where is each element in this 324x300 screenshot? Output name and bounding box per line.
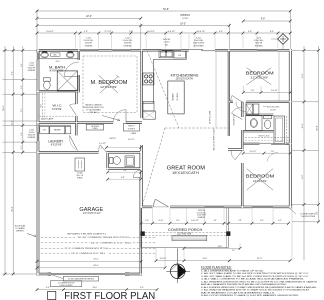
ceiling: vault ridge dashed [165, 127, 229, 129]
walls: double-line rendering (white core pass) [37, 49, 292, 275]
svg-text:12'X11'X9': 12'X11'X9' [250, 75, 268, 79]
extension stub porch row [183, 248, 185, 261]
window: m.bedroom top wall 1 [80, 49, 99, 51]
wall: bath2 north inner [244, 114, 274, 116]
wall: m wing south interior [36, 122, 115, 124]
window: great room south [205, 206, 225, 208]
door: bedroom2 door swing [235, 151, 242, 160]
door: mud bath door swing [100, 145, 106, 153]
svg-text:9'-8": 9'-8" [261, 19, 266, 21]
svg-text:7. ALL WINDOW HEADERS ■ NOTE T: 7. ALL WINDOW HEADERS ■ NOTE TO HAVE SOL… [201, 289, 310, 292]
svg-text:6'-6": 6'-6" [270, 31, 274, 33]
svg-text:56'-0": 56'-0" [3, 105, 5, 111]
fixture: bath2 vanity [246, 116, 262, 131]
svg-text:PATIO: PATIO [181, 13, 191, 17]
svg-text:22'-0": 22'-0" [86, 16, 92, 18]
top dimension row 2 left 22'-0 [37, 17, 141, 19]
garage dim row 22'-0 [37, 260, 141, 262]
wall: wic east / laundry east [75, 90, 77, 105]
svg-text:4'-4 1/2": 4'-4 1/2" [147, 31, 155, 33]
wall: bedroom1 south [228, 101, 234, 103]
svg-text:4. ALL WALL CORNERS TO BE 4x A: 4. ALL WALL CORNERS TO BE 4x AND INCLUDE… [201, 278, 305, 281]
wall: bedroom2 west / hall east [241, 101, 243, 118]
svg-text:EGRESS: EGRESS [85, 45, 93, 47]
svg-text:2'-1": 2'-1" [21, 145, 23, 149]
door: bedroom2 closet small arc [267, 152, 278, 161]
svg-text:50 GAL: 50 GAL [77, 171, 83, 174]
svg-text:2'-0": 2'-0" [145, 220, 149, 222]
porch: west edge line [140, 208, 142, 248]
fixture: m.bath double vanity [39, 51, 78, 58]
svg-text:ENTRY: ENTRY [110, 138, 117, 140]
svg-text:6'-2": 6'-2" [21, 63, 23, 67]
svg-text:7'-8": 7'-8" [213, 220, 217, 222]
window: bedroom1 top wall [257, 49, 278, 51]
svg-text:5'-4": 5'-4" [176, 220, 180, 222]
svg-text:4'-6 1/2": 4'-6 1/2" [168, 31, 176, 33]
svg-text:10'-0": 10'-0" [203, 258, 208, 260]
wall: mud bath south [105, 168, 143, 170]
svg-text:EGRESS: EGRESS [198, 217, 206, 219]
svg-text:EGRESS: EGRESS [124, 45, 132, 47]
wall: garage east [140, 150, 142, 171]
svg-text:EGRESS: EGRESS [28, 70, 36, 72]
svg-text:4'-6": 4'-6" [219, 31, 223, 33]
svg-text:4x CORNER STUD W/: 4x CORNER STUD W/ [58, 282, 75, 284]
walls: double-line rendering (dark pass) [37, 49, 292, 275]
svg-text:LAUNDRY: LAUNDRY [48, 140, 64, 144]
door: entry door great room [153, 199, 155, 207]
svg-text:FLOOR PLAN NOTES:: FLOOR PLAN NOTES: [201, 265, 232, 269]
svg-text:12'X6'X9': 12'X6'X9' [177, 232, 192, 236]
wall: top exterior [36, 49, 81, 51]
garage truss dashed line 4 with label [41, 252, 156, 254]
garage truss dashed line 2 with label [41, 242, 156, 244]
svg-text:10'-6 1/2": 10'-6 1/2" [197, 31, 206, 33]
svg-text:W.I.C.: W.I.C. [53, 104, 63, 108]
dim: hall row at closet [243, 152, 290, 154]
svg-text:6'-7": 6'-7" [21, 108, 23, 112]
svg-text:STAND: STAND [77, 177, 83, 180]
svg-text:6'X9'X9': 6'X9'X9' [52, 109, 62, 111]
garage hdr note box 2 [50, 281, 81, 287]
svg-text:(VERIFY): (VERIFY) [16, 230, 24, 232]
svg-text:2x6 PLATE: 2x6 PLATE [41, 117, 54, 120]
extension line: left wall to top rows [36, 10, 38, 49]
door: bath1 door swing [232, 96, 244, 103]
svg-text:26'-10" COMMON TRUSS 8/12 PITC: 26'-10" COMMON TRUSS 8/12 PITCH [78, 237, 130, 239]
door: m.bedroom door swing [113, 110, 126, 123]
svg-text:11'-2": 11'-2" [302, 73, 304, 78]
svg-text:2-2x10 DBL: 2-2x10 DBL [194, 40, 204, 42]
svg-text:8'-4 1/2": 8'-4 1/2" [271, 90, 278, 92]
bottom dim row long [156, 260, 290, 262]
fixture: kitchen counter L [143, 51, 186, 103]
svg-text:6'-10": 6'-10" [159, 220, 164, 222]
fixture: wic shelf and rod dashed [42, 93, 44, 119]
svg-text:8'X9'6"X9': 8'X9'6"X9' [50, 70, 64, 73]
svg-text:FIRST FLOOR PLAN: FIRST FLOOR PLAN [64, 291, 155, 300]
fixture: bedroom2 closet rod dashed [245, 137, 289, 139]
garage door dim row [37, 289, 157, 291]
fixture: dishwasher [174, 51, 185, 58]
wall: garage bottom exterior with overhead door opening [36, 273, 53, 275]
fixture: mud bath sink cabinet [125, 156, 134, 167]
fixture: water heater garage [75, 158, 85, 171]
title block square symbol [48, 291, 56, 299]
fixture: range [143, 73, 154, 85]
svg-text:3'-8": 3'-8" [317, 211, 319, 215]
line: kitchen dining ceiling break [215, 51, 217, 128]
dim: bedroom1 interior row [243, 92, 292, 94]
svg-text:12'X14'X9': 12'X14'X9' [100, 85, 118, 89]
ceiling: vault hip great room dashed [143, 128, 166, 205]
bottom dim row mid 24'-0 [184, 247, 240, 249]
svg-text:3. ALL INT. WALLS ARE TO BE 2x: 3. ALL INT. WALLS ARE TO BE 2x4 SPF CONS… [201, 275, 310, 278]
svg-text:W/ SHELF: W/ SHELF [128, 128, 135, 130]
porch stoop hatch [172, 236, 207, 241]
svg-text:ISLAND: ISLAND [172, 93, 175, 101]
room X mark: m.bedroom [100, 77, 118, 94]
dim: hall row above mud bath [107, 146, 141, 148]
wall: left exterior [37, 48, 40, 55]
left extension lines [3, 49, 38, 51]
fixture: kitchen island [168, 81, 184, 114]
left dimension chain inner [22, 46, 24, 152]
door: hall door below bedroom1 wall [245, 102, 247, 115]
svg-text:2'-6": 2'-6" [129, 31, 133, 33]
svg-text:2-2x6: 2-2x6 [125, 37, 130, 39]
svg-text:18'X18'XCATH: 18'X18'XCATH [172, 171, 200, 175]
extension stubs below south wall [152, 209, 154, 223]
svg-text:4-2x6: 4-2x6 [196, 37, 201, 39]
room X mark: bedroom1 [247, 68, 272, 85]
svg-text:5'-0": 5'-0" [99, 148, 103, 150]
svg-text:3'-0": 3'-0" [21, 85, 23, 89]
fixture: bath2 linen with X [246, 104, 253, 115]
left chain lower garage 25'-0 [12, 152, 14, 274]
svg-text:10'-0": 10'-0" [302, 123, 304, 128]
door: laundry door swing [70, 136, 78, 151]
svg-text:6030 SLIDER: 6030 SLIDER [193, 43, 205, 45]
svg-text:52'-8": 52'-8" [163, 9, 169, 11]
svg-text:25'-4": 25'-4" [11, 206, 13, 212]
svg-text:11'-6": 11'-6" [302, 174, 304, 179]
keynote diamond top right [278, 34, 289, 45]
wall: hall south [227, 148, 245, 150]
svg-text:8'-0": 8'-0" [260, 220, 264, 222]
svg-text:16'-0": 16'-0" [93, 287, 98, 289]
svg-text:4'-0 1/2": 4'-0 1/2" [99, 143, 106, 145]
svg-text:DW: DW [178, 55, 181, 57]
dim: porch corner 2'-0 [239, 243, 241, 248]
svg-text:COVERED PORCH: COVERED PORCH [168, 228, 203, 232]
porch: south slab edge [141, 247, 228, 249]
svg-text:ATTIC ACCESS: ATTIC ACCESS [267, 105, 280, 108]
svg-text:2-2x10 SILL: 2-2x10 SILL [254, 40, 264, 42]
right extension lines [292, 49, 319, 51]
svg-text:4'-0 1/2": 4'-0 1/2" [128, 139, 135, 141]
porch dimension row [141, 222, 289, 224]
svg-text:22'-0": 22'-0" [93, 259, 99, 261]
svg-text:2. ALL EXT. WALLS ARE TO BE 2x: 2. ALL EXT. WALLS ARE TO BE 2x6 SPF CONS… [201, 272, 310, 275]
svg-text:8'-4 1/2": 8'-4 1/2" [46, 31, 54, 33]
svg-text:3050 SH: 3050 SH [163, 39, 171, 41]
door: wic door leaf [70, 105, 77, 116]
ceiling: vault hip kitchen dashed [147, 51, 179, 129]
svg-text:2'-6": 2'-6" [271, 151, 275, 153]
svg-text:5'-8": 5'-8" [123, 170, 127, 172]
top dimension row 1 overall 52'-8 [37, 10, 290, 12]
wall: m.bath south / wic north [36, 90, 80, 92]
window: kitchen top wall [162, 49, 181, 51]
svg-text:6'-10 1/2": 6'-10 1/2" [191, 220, 199, 222]
fixture: pantry cabinet [123, 123, 139, 131]
svg-text:4'-6": 4'-6" [248, 31, 252, 33]
svg-text:16'-0" OVERH & 9'-0" SILL: 16'-0" OVERH & 9'-0" SILL [91, 242, 133, 244]
extension line: kitchen east wall top [228, 24, 230, 50]
svg-text:2-2x10: 2-2x10 [164, 42, 170, 44]
svg-text:5/8 GWB CLG: 5/8 GWB CLG [233, 114, 235, 125]
wall: garage top / house south at hall [36, 151, 100, 153]
svg-text:3'-0": 3'-0" [140, 287, 144, 289]
svg-text:3'-7 1/2": 3'-7 1/2" [104, 31, 112, 33]
svg-text:22'X25'X10': 22'X25'X10' [83, 211, 102, 215]
garage hdr note box 1 [63, 276, 98, 281]
wall: kitchen east [228, 48, 230, 137]
north arrow [166, 270, 190, 272]
right dimension chain outer [318, 46, 320, 222]
fixture: hall linen cabinet [86, 124, 103, 130]
svg-text:32'-8": 32'-8" [317, 125, 319, 131]
svg-text:16'-0" OVERH & 8'-0" SILL: 16'-0" OVERH & 8'-0" SILL [71, 253, 107, 255]
door: m.bath door swing [64, 62, 79, 77]
svg-text:3'-6": 3'-6" [21, 132, 23, 136]
svg-text:8. ALL DOOR OPENINGS TO HAVE @: 8. ALL DOOR OPENINGS TO HAVE @ 2x10 SPF … [201, 294, 300, 297]
garage truss dashed line 3 with label [41, 247, 156, 249]
wall: bedroom2 closet south with slider opening [242, 143, 260, 145]
svg-text:2'-8": 2'-8" [238, 220, 242, 222]
extension line: right wall to top rows [289, 10, 291, 49]
svg-text:44'-0": 44'-0" [93, 265, 99, 267]
wall: kitchen west [141, 48, 143, 119]
fixture: base cabinet below counter [143, 101, 154, 111]
garage dim row 44'-0 [37, 267, 165, 269]
svg-text:2-2x10 SILL: 2-2x10 SILL [123, 40, 133, 42]
door: bath2 door swing hall [232, 113, 243, 119]
svg-text:6030: 6030 [56, 61, 60, 63]
line: bedroom1 interior ceiling break [278, 52, 280, 101]
wall: right exterior [289, 48, 292, 210]
svg-text:EGRESS: EGRESS [28, 137, 36, 139]
porch header dashed lines [145, 232, 226, 234]
fixture: mud bath toilet [110, 157, 113, 163]
fixture: kitchen sink double bowl [159, 51, 173, 58]
svg-text:2-2x6: 2-2x6 [256, 37, 261, 39]
fixture: m.bath shower [57, 71, 77, 91]
svg-text:3'-0 1/2": 3'-0 1/2" [160, 258, 167, 260]
svg-text:5. ALL HEADERS (UNLESS NOTED): 5. ALL HEADERS (UNLESS NOTED) TO BE 2-2x… [201, 280, 318, 283]
porch post east [226, 231, 230, 236]
svg-text:9'-2": 9'-2" [11, 71, 13, 75]
svg-text:EACH BEARING LOCATION ■ BEARIN: EACH BEARING LOCATION ■ BEARING WALLS. [201, 291, 276, 294]
svg-text:5/8 TYPE X GWB: 5/8 TYPE X GWB [210, 110, 212, 124]
room X mark: bedroom2 [247, 169, 273, 190]
wall: m.bath east [78, 48, 80, 61]
svg-text:12'-2": 12'-2" [11, 120, 13, 125]
left dimension chain outer 56'-8 [4, 46, 6, 274]
svg-text:12'X11'X9': 12'X11'X9' [253, 179, 267, 183]
svg-text:LINTEL BORDER: LINTEL BORDER [60, 285, 73, 287]
window: m.bedroom top wall 2 [112, 49, 131, 51]
top dimension row 3 26'-0 [37, 25, 229, 27]
svg-text:6'-8": 6'-8" [121, 177, 125, 179]
svg-text:6'-2": 6'-2" [278, 220, 282, 222]
top dimension row 2 right 12'-6 [243, 20, 290, 22]
porch: east edge lines [226, 208, 228, 248]
fixture: m.bath toilet [43, 78, 50, 81]
fixture: broom closet [253, 104, 259, 115]
svg-text:2'-8": 2'-8" [251, 90, 255, 92]
fixture: bath2 toilet [264, 116, 272, 119]
window: laundry left wall [37, 132, 39, 141]
svg-text:W/ SCREEN: W/ SCREEN [193, 45, 204, 47]
garage door jamb blocks [48, 273, 52, 276]
svg-text:2'-0": 2'-0" [232, 250, 236, 252]
svg-text:3050 SH: 3050 SH [85, 43, 93, 45]
svg-text:1. ALL DIMENSIONS ARE TO FACE: 1. ALL DIMENSIONS ARE TO FACE OF STUD. [201, 269, 265, 272]
extension stubs above top wall [74, 34, 76, 49]
fixture: refrigerator [143, 111, 155, 119]
wall: great room / porch south exterior [140, 206, 154, 208]
svg-text:22'-0": 22'-0" [257, 258, 262, 260]
garage truss dashed line 1 with label [41, 237, 156, 239]
porch post west [141, 231, 145, 236]
svg-text:LINEN: LINEN [93, 128, 99, 130]
wall: mud bath west [107, 151, 109, 171]
svg-text:BEDROOM: BEDROOM [246, 173, 275, 178]
fixture: laundry counter washer dryer [38, 124, 71, 126]
svg-text:2-2x10 SILL: 2-2x10 SILL [84, 40, 94, 42]
svg-text:SHELF & ROD: SHELF & ROD [258, 135, 270, 137]
svg-text:(TYP. ALL): (TYP. ALL) [89, 111, 98, 114]
svg-text:1 HOUR GYPSUM: 1 HOUR GYPSUM [301, 216, 316, 218]
svg-text:AND ALL HEADERS SHOWN IN PLAN: AND ALL HEADERS SHOWN IN PLAN BELOW OVER… [201, 283, 288, 286]
svg-text:18'-5": 18'-5" [180, 23, 186, 25]
left dimension chain mid [12, 46, 14, 152]
door: garage entry door swing [133, 170, 141, 178]
svg-text:SILL: SILL [165, 44, 169, 46]
wic shelf dashed [40, 115, 75, 117]
svg-text:22'-0" COMMON TRUSS 8/12 PITCH: 22'-0" COMMON TRUSS 8/12 PITCH [65, 248, 109, 250]
svg-text:2'-6": 2'-6" [84, 31, 88, 33]
window: patio slider top wall [189, 49, 203, 51]
svg-text:WALL TO 16' TRAY CLG ABV: WALL TO 16' TRAY CLG ABV [213, 127, 216, 150]
svg-text:36" HIGH: 36" HIGH [177, 93, 179, 101]
svg-text:3'-0": 3'-0" [46, 287, 50, 289]
fixture: bath2 closet rod dashed [286, 116, 288, 144]
svg-text:2-2x6: 2-2x6 [86, 37, 91, 39]
fixture: bath2 tub [274, 116, 285, 144]
svg-text:24'-0": 24'-0" [218, 246, 223, 248]
svg-text:3050 SH: 3050 SH [124, 43, 132, 45]
window: bedroom2 south [252, 206, 273, 208]
svg-text:6'X10'X9': 6'X10'X9' [51, 144, 63, 146]
right dimension chain inner [303, 46, 305, 261]
wall: bath2 south [242, 130, 274, 132]
svg-text:3050 SH: 3050 SH [255, 43, 263, 45]
top dimension row 4 detail chain [37, 32, 290, 34]
ceiling: m.bedroom tray dashed [83, 56, 137, 113]
window: m.bath left wall [37, 53, 39, 60]
svg-text:12'X12': 12'X12' [182, 18, 189, 20]
svg-text:EGRESS: EGRESS [255, 45, 263, 47]
svg-text:4'-0 1/2": 4'-0 1/2" [250, 151, 257, 153]
svg-text:22"X30": 22"X30" [270, 109, 276, 111]
svg-text:18'X13'XCATH: 18'X13'XCATH [176, 77, 194, 81]
extension line: garage east wall top [140, 24, 142, 50]
svg-text:6. ALL EGRESS WINDOWS TO MEET: 6. ALL EGRESS WINDOWS TO MEET MIN EGRESS… [201, 286, 317, 289]
